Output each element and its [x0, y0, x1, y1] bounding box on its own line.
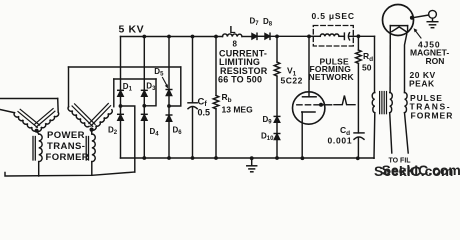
wire col1 lower: [120, 120, 122, 158]
svg-text:TRANS-: TRANS-: [47, 141, 85, 152]
junction dot Rb top: [214, 35, 218, 39]
wire phase input H3: [0, 98, 58, 100]
junction dot PFN left / thyratron anode node: [307, 35, 311, 39]
transformer pulse secondary 1 winding: [390, 93, 393, 113]
wire thyratron anode from bus: [308, 36, 310, 96]
magnetron tube 4J50 envelope: [383, 5, 414, 36]
transformer power left unit right arm winding: [37, 112, 60, 132]
ground: [247, 158, 257, 172]
transformer power right unit left arm winding: [67, 107, 89, 128]
diode D5: [166, 90, 172, 96]
svg-text:PEAK: PEAK: [409, 79, 435, 89]
wire col1 midpoint to transformer return: [121, 106, 135, 172]
wire col1 mid: [120, 96, 122, 114]
svg-text:66 TO 500: 66 TO 500: [218, 75, 262, 85]
wire D9 to D10: [276, 122, 278, 133]
magnetron cathode box: [390, 26, 407, 33]
wire secondary1 bottom lead to fil: [390, 113, 392, 153]
wire bus L to D7: [242, 36, 252, 38]
wire Cd to bottom bus: [357, 138, 359, 159]
wire transformer return: [5, 172, 135, 176]
node left transformer center junction: [35, 129, 39, 133]
junction dot bottom col3: [167, 156, 171, 160]
transformer power left unit vertical core: [33, 137, 35, 161]
wire phase input to left transformer left arm: [0, 110, 15, 113]
svg-text:5C22: 5C22: [281, 76, 303, 86]
junction dot bottom cathode: [301, 156, 305, 160]
text block current-limiting resistor: [218, 49, 268, 85]
transformer power left unit right arm core: [34, 109, 55, 128]
diode D9: [274, 116, 280, 122]
junction dot PFN right: [357, 34, 361, 38]
transformer power left unit left arm core: [18, 109, 40, 127]
wire Rd from PFN node: [357, 36, 359, 50]
capacitor Cd: [354, 133, 364, 139]
thyratron anode plate: [303, 96, 317, 98]
transformer power left unit left arm winding: [13, 113, 36, 133]
wire Rd to Cd: [357, 63, 359, 132]
wire H3 riser to left transformer right arm: [57, 99, 60, 113]
wire primary bottom lead: [373, 113, 376, 159]
diode D6: [166, 115, 172, 121]
transformer power right unit left arm core: [72, 104, 95, 127]
junction dot col2 midpoint: [142, 104, 146, 108]
wire D8 to PFN: [270, 35, 309, 37]
junction dot col3 midpoint: [167, 104, 171, 108]
diode D7: [252, 33, 257, 39]
svg-text:0.5 μSEC: 0.5 μSEC: [312, 11, 355, 21]
wire col2 midpoint riser to H2: [144, 79, 156, 106]
svg-text:50: 50: [362, 63, 372, 73]
wire Rb lower: [215, 109, 217, 158]
diode D4: [142, 114, 148, 120]
svg-text:8: 8: [233, 40, 238, 49]
op-amp thyratron tube V1 envelope: [293, 92, 325, 124]
junction dot col3 top: [167, 35, 171, 39]
node trigger pulse glyph: [334, 96, 355, 105]
transformer pulse secondary 2 winding: [405, 93, 408, 113]
node right transformer center junction: [90, 128, 94, 132]
diode D1: [118, 90, 124, 96]
wire rectifier column 1 upper: [120, 37, 122, 91]
junction dot bottom Cf: [191, 156, 195, 160]
wire clipper resistor to D9: [276, 77, 278, 117]
label PULSE FORMING NETWORK: [309, 57, 355, 83]
svg-text:SeekIC.com: SeekIC.com: [382, 162, 460, 178]
wire secondary2 top lead to magnetron: [405, 34, 407, 93]
svg-text:0.5: 0.5: [198, 108, 211, 118]
node magnetron anode dot: [410, 16, 414, 20]
label PULSE TRANSFORMER: [410, 93, 454, 121]
transformer pulse primary winding: [372, 93, 375, 113]
svg-text:5 KV: 5 KV: [119, 23, 145, 35]
junction dot bottom col2: [142, 156, 146, 160]
svg-text:0.001: 0.001: [328, 135, 353, 145]
diode D10: [274, 134, 280, 140]
wire PFN mid: [339, 35, 344, 37]
wire col2 mid: [143, 96, 145, 114]
junction dot col1 midpoint: [119, 104, 123, 108]
svg-text:L: L: [230, 25, 236, 36]
label 20 KV PEAK: [409, 70, 436, 89]
wire Cf lower: [192, 107, 194, 158]
wire right primary bottom to return: [91, 162, 93, 176]
resistor Rb: [213, 95, 219, 108]
resistor clipper chain: [274, 62, 280, 76]
label D5 with pointer arrow: [154, 67, 168, 89]
node grid junction dot: [319, 103, 323, 107]
label 4J50 with arrow: [410, 28, 449, 66]
wire col3 lower: [168, 121, 170, 158]
svg-text:POWER: POWER: [47, 130, 85, 141]
wire grid out: [323, 104, 332, 106]
thyratron grid dashed: [297, 104, 320, 106]
wire col2 lower: [143, 120, 145, 158]
junction dot bottom ground: [250, 156, 254, 160]
wire col3 midpoint riser to H1: [169, 67, 181, 106]
transformer power right unit vertical winding: [92, 130, 96, 162]
thyratron cathode: [302, 112, 315, 158]
transformer power right unit right arm winding: [92, 110, 114, 132]
transformer power left unit vertical winding: [37, 131, 43, 162]
junction dot Cf top: [191, 35, 195, 39]
wire D7 to D8: [257, 35, 265, 37]
wire H2 horizontal: [114, 78, 156, 80]
capacitor Cf: [188, 103, 197, 109]
antenna output symbol: [427, 10, 438, 27]
wire D10 to bottom bus: [276, 140, 278, 158]
capacitor network PFN dashed box: [313, 26, 353, 47]
wire Cf column upper: [192, 37, 194, 103]
wire col3 mid: [168, 96, 170, 116]
transformer power right unit vertical core: [86, 137, 88, 161]
svg-text:FORMER: FORMER: [411, 110, 454, 120]
junction dot bottom Cd: [356, 156, 360, 160]
wire top 5KV bus left segment: [121, 36, 223, 38]
wire PFN entry: [309, 35, 320, 37]
diode D3: [142, 90, 148, 96]
junction dot col2 top: [142, 35, 146, 39]
capacitor PFN: [344, 33, 349, 40]
inductor L charging: [223, 34, 242, 37]
label POWER TRANSFORMER: [46, 130, 90, 163]
svg-text:FORMER: FORMER: [46, 152, 90, 163]
junction dot after D8: [275, 35, 279, 39]
wire secondary2 bottom lead to fil: [405, 113, 409, 153]
svg-text:13 MEG: 13 MEG: [222, 104, 254, 114]
wire bottom bus: [121, 157, 375, 159]
junction dot bottom clipper: [275, 156, 279, 160]
diode D8: [265, 33, 270, 39]
wire left primary bottom to return: [38, 162, 40, 176]
svg-text:NETWORK: NETWORK: [309, 72, 355, 82]
wire clipper chain from bus: [276, 36, 278, 62]
transformer pulse core: [380, 92, 387, 114]
wire secondary1 top lead to magnetron: [389, 26, 391, 93]
wire PFN out: [349, 35, 375, 37]
inductor PFN: [320, 34, 339, 36]
wire rectifier column 2 upper: [143, 37, 145, 91]
wire H1 horizontal: [69, 66, 181, 68]
wire rectifier column 3 upper: [168, 37, 170, 91]
wire primary top lead: [374, 36, 376, 92]
diode D2: [118, 114, 124, 120]
wire H2 right transformer right arm riser: [113, 79, 115, 107]
transformer power right unit right arm core: [89, 104, 111, 127]
wire H1 right transformer left arm riser: [68, 67, 70, 107]
junction dot bottom Rb: [214, 156, 218, 160]
watermark: [374, 162, 460, 179]
wire Rb column upper: [215, 37, 217, 96]
wire magnetron output: [412, 15, 429, 18]
resistor Rd: [356, 50, 362, 63]
svg-text:RON: RON: [426, 56, 445, 66]
